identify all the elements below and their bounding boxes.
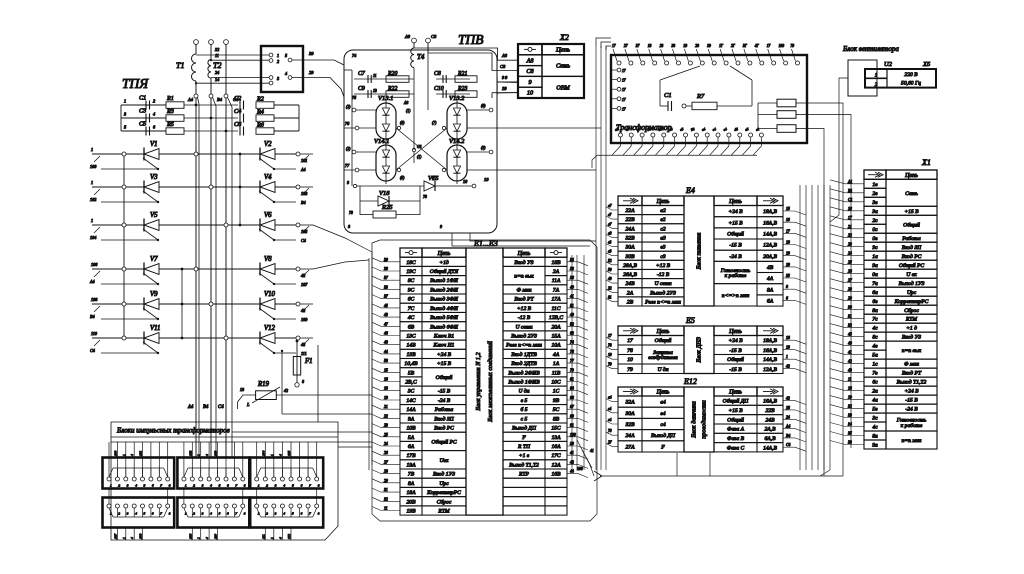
svg-text:Общий: Общий: [655, 337, 672, 344]
svg-text:+15 В: +15 В: [437, 361, 452, 367]
svg-text:5: 5: [292, 484, 294, 488]
svg-text:7в: 7в: [872, 371, 878, 377]
svg-text:48: 48: [384, 341, 388, 345]
svg-text:Выход 4ФИ: Выход 4ФИ: [430, 305, 459, 312]
svg-text:42: 42: [786, 397, 790, 401]
svg-text:Uрс: Uрс: [439, 481, 449, 487]
svg-text:Выход 5ФИ: Выход 5ФИ: [430, 314, 459, 321]
svg-text:111: 111: [261, 534, 265, 539]
svg-text:42: 42: [301, 342, 305, 347]
svg-text:Выход Т1,Т2: Выход Т1,Т2: [509, 461, 539, 468]
svg-text:Блок ДНЗ: Блок ДНЗ: [696, 337, 703, 363]
svg-text:с4: с4: [660, 422, 665, 428]
svg-text:к работе: к работе: [901, 422, 923, 429]
svg-text:V6: V6: [264, 212, 272, 219]
svg-text:в3: в3: [660, 245, 665, 251]
svg-text:в2: в2: [660, 217, 665, 223]
svg-text:Вход ЗП: Вход ЗП: [434, 415, 454, 422]
svg-text:11: 11: [384, 507, 388, 511]
svg-text:11В: 11В: [552, 370, 561, 376]
svg-text:16А,В: 16А,В: [763, 348, 777, 354]
svg-text:1: 1: [197, 537, 201, 539]
svg-text:10: 10: [484, 177, 489, 182]
svg-text:В4: В4: [90, 314, 95, 319]
svg-text:7: 7: [160, 484, 162, 488]
svg-text:24А: 24А: [625, 433, 635, 439]
svg-text:с2: с2: [660, 226, 665, 232]
svg-text:А4: А4: [187, 405, 194, 410]
svg-text:1: 1: [277, 53, 279, 58]
svg-text:V11: V11: [150, 325, 160, 332]
svg-text:2В: 2В: [627, 300, 634, 306]
svg-text:С4: С4: [786, 443, 791, 447]
svg-text:31: 31: [384, 488, 388, 492]
svg-text:45: 45: [384, 304, 388, 308]
svg-text:С4: С4: [301, 238, 306, 243]
svg-text:107: 107: [301, 282, 308, 287]
svg-text:А8: А8: [501, 53, 508, 58]
svg-text:Выход 1УЗ: Выход 1УЗ: [899, 280, 925, 287]
svg-text:14С: 14С: [406, 398, 416, 404]
svg-text:8: 8: [169, 484, 171, 488]
svg-text:24: 24: [786, 415, 790, 419]
svg-text:F: F: [660, 444, 665, 450]
svg-text:15С: 15С: [551, 426, 561, 432]
svg-text:42: 42: [301, 308, 305, 313]
svg-text:R25: R25: [381, 204, 393, 211]
svg-text:15А: 15А: [551, 334, 561, 340]
svg-text:8А: 8А: [408, 481, 415, 487]
svg-text:18: 18: [648, 44, 652, 48]
svg-text:22: 22: [608, 286, 612, 290]
svg-text:6: 6: [786, 296, 788, 300]
svg-text:F: F: [521, 435, 526, 441]
svg-text:5а: 5а: [872, 353, 878, 359]
svg-text:В4: В4: [217, 97, 223, 102]
svg-text:5: 5: [219, 484, 221, 488]
svg-text:Т1: Т1: [176, 61, 184, 70]
svg-text:39: 39: [707, 44, 711, 48]
svg-text:V2: V2: [264, 141, 272, 148]
svg-text:R6: R6: [256, 122, 265, 129]
svg-text:6А,В: 6А,В: [764, 436, 776, 442]
svg-text:С4: С4: [234, 108, 241, 115]
svg-text:15: 15: [384, 368, 388, 372]
svg-text:2А,В: 2А,В: [764, 427, 776, 433]
svg-text:22: 22: [384, 414, 388, 418]
svg-text:Вход УЗ: Вход УЗ: [902, 334, 921, 341]
svg-text:(5): (5): [400, 121, 405, 125]
svg-text:112: 112: [287, 534, 291, 539]
svg-text:3С: 3С: [407, 389, 415, 395]
svg-text:9В: 9В: [553, 398, 560, 404]
svg-text:17: 17: [622, 88, 626, 92]
svg-text:101: 101: [139, 451, 143, 457]
svg-text:(2): (2): [346, 105, 351, 109]
svg-text:А8: А8: [403, 101, 408, 105]
svg-text:(1): (1): [406, 109, 411, 113]
svg-text:В4: В4: [203, 405, 209, 410]
svg-text:9: 9: [528, 79, 531, 86]
svg-text:с7: с7: [608, 222, 612, 226]
svg-text:Общий РС: Общий РС: [899, 262, 924, 269]
svg-text:1: 1: [124, 99, 126, 104]
svg-text:5С: 5С: [553, 407, 560, 413]
svg-text:100: 100: [90, 164, 97, 169]
svg-text:0с: 0с: [872, 227, 878, 233]
svg-text:Цепь: Цепь: [728, 199, 742, 205]
svg-text:8: 8: [302, 379, 304, 384]
svg-text:14А: 14А: [406, 407, 416, 413]
svg-text:(5): (5): [400, 176, 405, 180]
svg-text:11С: 11С: [552, 306, 561, 312]
svg-text:24: 24: [384, 442, 388, 446]
svg-text:3: 3: [277, 76, 279, 81]
svg-text:в 5: в 5: [521, 398, 528, 404]
svg-text:20А,В: 20А,В: [763, 254, 777, 260]
svg-text:17: 17: [622, 98, 626, 102]
svg-text:4: 4: [130, 537, 134, 539]
svg-text:4С: 4С: [408, 315, 415, 321]
svg-text:2: 2: [193, 484, 195, 488]
svg-text:22А: 22А: [625, 208, 635, 214]
svg-text:А8: А8: [404, 34, 411, 39]
svg-text:Общий: Общий: [903, 221, 920, 228]
svg-text:Цепь: Цепь: [904, 173, 918, 179]
svg-text:1С: 1С: [553, 389, 560, 395]
svg-text:С4: С4: [218, 405, 224, 410]
svg-text:в4: в4: [660, 411, 665, 417]
svg-text:R7: R7: [696, 93, 705, 100]
svg-text:1: 1: [786, 355, 788, 359]
svg-text:ОВМ: ОВМ: [556, 84, 570, 91]
svg-text:Цепь: Цепь: [517, 251, 531, 257]
svg-text:Выход 2УЗ: Выход 2УЗ: [650, 289, 676, 296]
svg-text:20В: 20В: [406, 499, 416, 505]
svg-text:1в: 1в: [872, 182, 878, 188]
svg-text:-15 В: -15 В: [438, 389, 451, 395]
svg-text:1: 1: [270, 454, 274, 456]
svg-text:V14.1: V14.1: [374, 138, 389, 145]
svg-text:106: 106: [91, 262, 98, 267]
svg-text:109: 109: [301, 317, 308, 322]
svg-text:37: 37: [636, 44, 640, 48]
svg-text:8: 8: [786, 285, 788, 289]
svg-text:V4: V4: [264, 174, 272, 181]
svg-text:1: 1: [185, 484, 187, 488]
svg-text:9с: 9с: [872, 245, 878, 251]
svg-text:7С: 7С: [408, 306, 415, 312]
svg-text:2А: 2А: [627, 290, 634, 296]
svg-text:13: 13: [373, 89, 377, 93]
svg-text:44: 44: [384, 350, 388, 354]
svg-text:41: 41: [590, 449, 594, 453]
svg-text:+15 В: +15 В: [728, 408, 743, 414]
svg-text:Цепь: Цепь: [656, 329, 670, 335]
svg-text:16А,В: 16А,В: [763, 220, 777, 226]
svg-text:U дн: U дн: [657, 366, 668, 373]
svg-text:+12 В: +12 В: [656, 263, 671, 269]
svg-text:Выход 2УЗ: Выход 2УЗ: [511, 333, 537, 340]
svg-text:17: 17: [612, 44, 616, 48]
svg-text:9: 9: [347, 180, 349, 185]
svg-text:4: 4: [205, 537, 209, 539]
svg-text:1: 1: [91, 180, 93, 185]
svg-text:24В: 24В: [765, 417, 775, 423]
svg-text:Выход 3ФИ: Выход 3ФИ: [430, 296, 459, 303]
svg-text:R2: R2: [256, 96, 264, 103]
svg-text:R23: R23: [457, 86, 467, 92]
svg-text:6В: 6В: [408, 324, 415, 330]
svg-text:100: 100: [570, 433, 576, 437]
svg-text:32: 32: [215, 47, 219, 52]
svg-text:102: 102: [90, 197, 96, 202]
svg-text:R3: R3: [166, 108, 174, 115]
svg-text:+15 В: +15 В: [728, 220, 743, 226]
svg-text:2А: 2А: [553, 269, 560, 275]
svg-text:С10: С10: [434, 86, 444, 92]
svg-text:18: 18: [240, 387, 244, 392]
svg-text:19: 19: [786, 252, 790, 256]
svg-text:1: 1: [91, 147, 93, 152]
svg-text:+24 В: +24 В: [437, 352, 452, 358]
svg-text:Общий: Общий: [436, 374, 453, 381]
svg-text:78: 78: [608, 344, 612, 348]
svg-text:29: 29: [309, 70, 314, 75]
svg-text:R4: R4: [256, 109, 264, 116]
svg-text:111: 111: [301, 351, 307, 356]
svg-text:10А: 10А: [551, 343, 561, 349]
svg-text:52: 52: [608, 259, 612, 263]
svg-text:81: 81: [608, 295, 612, 299]
svg-text:Uрс: Uрс: [907, 290, 917, 296]
svg-text:Выход ДП: Выход ДП: [512, 425, 537, 432]
svg-text:1: 1: [122, 454, 126, 456]
svg-text:100: 100: [779, 44, 785, 48]
svg-text:17С: 17С: [551, 453, 561, 459]
svg-text:В4: В4: [786, 434, 790, 438]
svg-text:Вход РТ: Вход РТ: [514, 296, 534, 303]
svg-text:А1: А1: [847, 180, 852, 184]
svg-text:11: 11: [215, 53, 219, 58]
svg-text:109: 109: [188, 534, 192, 540]
svg-text:3а: 3а: [871, 209, 878, 215]
svg-text:Х5: Х5: [922, 61, 931, 68]
svg-text:Блок управления N 1,2: Блок управления N 1,2: [475, 352, 482, 411]
svg-text:3: 3: [127, 484, 129, 488]
svg-text:46: 46: [384, 332, 388, 336]
svg-text:В4: В4: [301, 200, 306, 205]
svg-text:С7: С7: [358, 71, 366, 77]
svg-text:возбудителя: возбудителя: [648, 354, 678, 361]
svg-text:С8: С8: [526, 68, 534, 75]
svg-text:0а: 0а: [872, 272, 878, 278]
svg-text:КорректирРС: КорректирРС: [426, 490, 461, 496]
svg-text:Ключ Н1: Ключ Н1: [433, 343, 455, 349]
svg-text:2: 2: [875, 82, 878, 88]
svg-text:в4: в4: [608, 407, 612, 411]
svg-text:22В: 22В: [765, 408, 775, 414]
svg-text:R5: R5: [166, 121, 174, 128]
svg-text:10: 10: [608, 353, 612, 357]
svg-text:4с: 4с: [872, 326, 878, 332]
svg-text:Вход 2ДТВ: Вход 2ДТВ: [511, 360, 537, 367]
svg-text:R19: R19: [257, 381, 270, 388]
svg-text:39: 39: [309, 51, 314, 56]
svg-text:103: 103: [214, 451, 218, 457]
svg-text:Выход 1ФИ: Выход 1ФИ: [430, 277, 459, 284]
svg-text:16: 16: [786, 406, 790, 410]
svg-text:Вход УЗ: Вход УЗ: [514, 259, 533, 266]
svg-text:+15 В: +15 В: [904, 209, 919, 215]
svg-text:Цепь: Цепь: [437, 251, 451, 257]
svg-text:U2: U2: [884, 61, 893, 68]
svg-text:+12 В: +12 В: [517, 306, 532, 312]
svg-text:1: 1: [270, 537, 274, 539]
svg-text:15: 15: [786, 207, 790, 211]
svg-text:13С: 13С: [406, 334, 416, 340]
svg-text:Т2: Т2: [213, 61, 221, 70]
svg-text:3с: 3с: [871, 416, 878, 422]
svg-text:2: 2: [266, 484, 268, 488]
svg-text:а7: а7: [608, 204, 612, 208]
svg-text:а3: а3: [660, 236, 666, 242]
svg-text:Т4: Т4: [417, 53, 425, 61]
svg-text:а4: а4: [608, 396, 612, 400]
svg-text:6а: 6а: [872, 290, 878, 296]
svg-text:10,4В: 10,4В: [404, 361, 418, 367]
svg-text:U сети: U сети: [654, 281, 671, 287]
svg-text:-15 В: -15 В: [905, 398, 918, 404]
svg-text:А8: А8: [526, 57, 535, 64]
svg-text:8: 8: [244, 484, 246, 488]
svg-text:1А: 1А: [553, 361, 560, 367]
svg-text:С1: С1: [664, 92, 672, 99]
svg-text:2В,С: 2В,С: [405, 380, 417, 386]
svg-text:(2): (2): [346, 147, 351, 151]
svg-text:6с: 6с: [872, 380, 878, 386]
svg-text:19: 19: [683, 44, 687, 48]
svg-text:9: 9: [440, 224, 442, 229]
svg-text:А4: А4: [300, 167, 306, 172]
svg-text:4А: 4А: [767, 276, 774, 282]
svg-text:4: 4: [153, 112, 155, 117]
svg-text:10: 10: [786, 263, 790, 267]
svg-text:5: 5: [144, 484, 146, 488]
svg-text:8с: 8с: [872, 335, 878, 341]
svg-text:8С: 8С: [408, 278, 415, 284]
svg-text:17В: 17В: [406, 453, 416, 459]
svg-text:Вход РТ: Вход РТ: [902, 370, 922, 377]
svg-text:Блок питания: Блок питания: [696, 232, 703, 270]
svg-text:3: 3: [202, 484, 204, 488]
svg-text:28А,В: 28А,В: [623, 263, 637, 269]
svg-text:Цепь: Цепь: [728, 329, 742, 335]
svg-text:5: 5: [285, 53, 287, 58]
svg-text:16: 16: [384, 378, 388, 382]
svg-text:Вход РС: Вход РС: [434, 425, 454, 432]
svg-text:8: 8: [348, 224, 350, 229]
svg-text:-24 В: -24 В: [729, 254, 742, 260]
svg-text:4с: 4с: [872, 425, 878, 431]
svg-text:Реле n<=n мин: Реле n<=n мин: [505, 343, 542, 349]
svg-text:6: 6: [301, 484, 303, 488]
svg-text:Вход РС: Вход РС: [902, 253, 922, 260]
svg-text:С6: С6: [234, 121, 242, 128]
svg-text:13А: 13А: [551, 435, 561, 441]
svg-text:7А: 7А: [553, 287, 560, 293]
svg-text:1: 1: [122, 537, 126, 539]
svg-text:18А,В: 18А,В: [763, 209, 777, 215]
svg-text:9а: 9а: [872, 263, 878, 269]
svg-text:18: 18: [384, 387, 388, 391]
svg-text:Фаза С: Фаза С: [727, 445, 745, 451]
svg-text:4: 4: [205, 454, 209, 456]
svg-text:Цепь: Цепь: [555, 47, 570, 54]
svg-text:6: 6: [227, 484, 229, 488]
svg-text:8я: 8я: [872, 434, 878, 440]
svg-text:13В: 13В: [406, 352, 416, 358]
svg-text:18А: 18А: [406, 490, 416, 496]
svg-text:А4: А4: [785, 425, 790, 429]
svg-text:27А: 27А: [625, 444, 635, 450]
svg-text:8а: 8а: [872, 308, 878, 314]
svg-text:18: 18: [786, 346, 790, 350]
svg-text:78: 78: [627, 348, 633, 354]
svg-text:V13.2: V13.2: [449, 95, 465, 102]
svg-text:100: 100: [577, 467, 583, 471]
svg-text:-24 В: -24 В: [438, 398, 451, 404]
svg-text:V14.2: V14.2: [449, 138, 465, 145]
svg-text:Блок межплатных соединений: Блок межплатных соединений: [487, 340, 494, 423]
svg-text:V9: V9: [150, 291, 158, 298]
svg-text:50: 50: [608, 268, 612, 272]
svg-text:17: 17: [608, 334, 612, 338]
svg-text:Общий РС: Общий РС: [431, 438, 456, 445]
svg-text:V3: V3: [150, 174, 158, 181]
svg-text:ТПЯ: ТПЯ: [122, 76, 149, 91]
svg-text:23: 23: [384, 424, 388, 428]
svg-text:32А: 32А: [624, 400, 635, 406]
svg-text:RTM: RTM: [905, 317, 918, 323]
svg-text:220 В: 220 В: [904, 72, 918, 78]
svg-text:39: 39: [384, 258, 388, 262]
svg-text:Общий: Общий: [727, 230, 744, 237]
svg-text:78: 78: [349, 211, 353, 215]
svg-text:8В: 8В: [553, 416, 560, 422]
svg-text:12А,В: 12А,В: [763, 243, 777, 249]
svg-text:6А: 6А: [408, 444, 415, 450]
svg-text:F1: F1: [304, 358, 313, 365]
svg-text:Выход 2ФИ: Выход 2ФИ: [430, 286, 459, 293]
svg-text:50,60 Гц: 50,60 Гц: [901, 81, 921, 87]
svg-text:(0): (0): [481, 104, 486, 108]
svg-text:U вк: U вк: [906, 272, 917, 278]
svg-text:29: 29: [695, 44, 699, 48]
svg-text:16А: 16А: [551, 444, 561, 450]
svg-text:1: 1: [875, 73, 878, 79]
svg-text:9А: 9А: [408, 416, 415, 422]
svg-text:-12 В: -12 В: [518, 315, 531, 321]
svg-text:8: 8: [318, 484, 320, 488]
svg-text:Вход 1ДТВ: Вход 1ДТВ: [511, 351, 537, 358]
svg-text:2а: 2а: [872, 389, 878, 395]
svg-text:2: 2: [118, 484, 120, 488]
svg-text:6в: 6в: [872, 299, 878, 305]
svg-text:С5: С5: [139, 121, 146, 128]
svg-text:30В: 30В: [624, 254, 635, 260]
svg-text:7с: 7с: [872, 317, 878, 323]
